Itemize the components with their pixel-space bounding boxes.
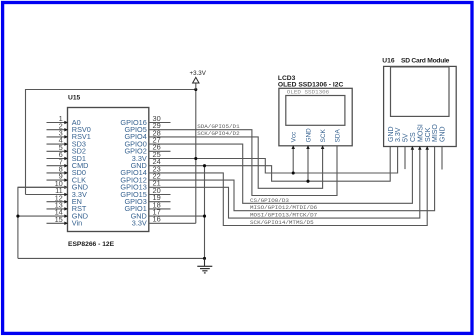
- U15 pin 20 (GPIO15) number and label with stub wire: [120, 186, 170, 199]
- U16 pin CS label and arrow: [410, 132, 417, 150]
- svg-text:SCK/GPIO14/MTMS/D5: SCK/GPIO14/MTMS/D5: [250, 219, 314, 226]
- LCD3 pin Vcc label: [291, 131, 298, 142]
- U16 card slot rectangle: [391, 67, 450, 117]
- wire U15 pin24 GND branch to OLED GND and SD GND: [149, 147, 390, 182]
- U16 value label SD Card Module: [401, 57, 450, 64]
- svg-text:U15: U15: [68, 94, 81, 101]
- U15 pin 22 (GPIO12) number and label: [120, 172, 160, 185]
- svg-text:GND: GND: [440, 126, 447, 142]
- U15 reference designator: [68, 94, 81, 101]
- junction on 3.3V rail at pin25: [194, 157, 197, 160]
- junction GND at OLED GND: [306, 180, 309, 183]
- junction 3.3V at OLED Vcc: [292, 171, 295, 174]
- ground symbol: [197, 258, 212, 273]
- junction GND rail at pin24: [203, 164, 206, 167]
- U16 5V unconnected stub wire: [404, 147, 406, 170]
- U16 pin MOSI label and arrow: [417, 124, 424, 150]
- svg-text:CS: CS: [410, 132, 417, 142]
- svg-text:3.3V: 3.3V: [132, 219, 147, 228]
- U15 pin 26 (GPIO2) number and label with stub wire: [124, 143, 170, 156]
- LCD3 pin SDA label: [334, 129, 341, 143]
- U15 pin 7 (CMD) wire, number and label: [47, 157, 89, 170]
- wire net MOSI: U15 pin21 GPIO13 to SD MOSI: [149, 147, 420, 219]
- U15 pin 2 (RSV0) wire, number and label: [47, 121, 91, 134]
- LCD3 pin GND arrow: [306, 145, 310, 149]
- svg-text:GND: GND: [388, 126, 395, 142]
- svg-text:15: 15: [55, 215, 63, 224]
- net label SCK/GPIO14/MTMS/D5: [250, 219, 314, 226]
- wire U15 pin25 3.3V branch to OLED Vcc and SD 3.3V: [149, 147, 398, 174]
- wire net SCK-SPI: U15 pin23 GPIO14 to SD SCK: [149, 147, 427, 226]
- svg-text:OLED SSD1306 - I2C: OLED SSD1306 - I2C: [278, 82, 344, 89]
- svg-text:SCK: SCK: [320, 129, 327, 143]
- display module LCD3 body: [279, 88, 352, 146]
- U15 pin 21 (GPIO13) number and label: [120, 179, 160, 192]
- wire U15 pin16 3.3V to rail: [149, 222, 196, 224]
- svg-text:MISO: MISO: [432, 124, 439, 142]
- svg-text:MOSI: MOSI: [417, 124, 424, 142]
- U15 pin 16 (3.3V) number and label: [132, 215, 161, 228]
- LCD3 pin GND label: [305, 128, 312, 143]
- svg-text:GND: GND: [305, 128, 312, 143]
- power label +3.3V: [190, 70, 207, 77]
- wire +3.3V rail vertical right of U15: [195, 90, 197, 224]
- U15 pin 19 (GPIO3) number and label with stub wire: [124, 193, 170, 206]
- U16 pin SCK label and arrow: [425, 127, 432, 149]
- svg-text:3.3V: 3.3V: [395, 127, 402, 142]
- LCD3 silkscreen text OLED SSD1306: [287, 89, 330, 96]
- svg-text:OLED SSD1306: OLED SSD1306: [287, 89, 330, 96]
- U15 pin 18 (GPIO1) number and label with stub wire: [124, 200, 170, 213]
- wire net SCL: U15 pin28 GPIO4 to OLED SCK: [149, 137, 323, 188]
- svg-text:5V: 5V: [403, 133, 410, 142]
- svg-text:SDA/GPIO5/D1: SDA/GPIO5/D1: [197, 123, 240, 130]
- LCD3 pin SCK label: [320, 129, 327, 143]
- svg-text:+3.3V: +3.3V: [190, 70, 207, 77]
- wire U15 pin17 GND to rail: [149, 215, 205, 217]
- svg-text:SCK/GPIO4/D2: SCK/GPIO4/D2: [197, 130, 240, 137]
- junction GND at ground symbol: [203, 257, 206, 260]
- U15 pin 10 (GND) wire, number and label: [18, 179, 88, 192]
- SD card module U16 body: [384, 66, 457, 146]
- U15 pin 1 (A0) wire, number and label: [47, 114, 81, 127]
- U15 pin 14 (GND) wire, number and label: [18, 208, 88, 221]
- U15 pin 28 (GPIO4) number and label: [124, 128, 160, 141]
- svg-text:ESP8266 - 12E: ESP8266 - 12E: [68, 241, 115, 248]
- svg-text:SD Card Module: SD Card Module: [401, 57, 450, 64]
- junction GND rail at pin17: [203, 215, 206, 218]
- LCD3 pin SCK arrow: [321, 145, 325, 149]
- U15 pin 17 (GND) number and label: [131, 208, 161, 221]
- wire bottom GND run: [18, 257, 205, 259]
- U15 pin 9 (CLK) wire, number and label: [47, 172, 87, 185]
- U15 pin 6 (SD1) wire, number and label: [47, 150, 87, 163]
- U15 pin 11 (3.3V) wire, number and label: [26, 186, 87, 199]
- U15 pin 25 (3.3V) number and label: [132, 150, 161, 163]
- U15 pin 12 (EN) wire, number and label: [47, 193, 82, 206]
- U16 pin GND label: [388, 126, 395, 142]
- wire net SDA: U15 pin29 GPIO5 to OLED SDA: [149, 130, 337, 196]
- U15 pin 30 (GPIO16) number and label with stub wire: [120, 114, 170, 127]
- net label SDA/GPIO5/D1: [197, 123, 240, 130]
- LCD3 pin Vcc arrow: [291, 145, 295, 149]
- net label MISO/GPIO12/MTDI/D6: [250, 204, 318, 211]
- U15 pin 3 (RSV1) wire, number and label: [47, 129, 91, 142]
- svg-text:U16: U16: [382, 57, 395, 64]
- LCD3 screen rectangle: [286, 96, 345, 126]
- wire OLED Vcc stub: [292, 146, 294, 173]
- U16 GND2 unconnected stub wire: [441, 147, 443, 170]
- U16 pin GND label: [440, 126, 447, 142]
- U16 reference designator: [382, 57, 395, 64]
- power symbol +3.3V: [193, 77, 199, 89]
- U16 pin 5V label: [403, 133, 410, 142]
- wire GND rail vertical right of U15: [204, 166, 206, 259]
- U15 pin 8 (SD0) wire, number and label: [47, 165, 87, 178]
- U15 pin 5 (SD2) wire, number and label: [47, 143, 87, 156]
- U15 pin 4 (SD3) wire, number and label: [47, 136, 87, 149]
- U15 pin 13 (RST) wire, number and label: [47, 201, 87, 214]
- wire net CS: U15 pin27 GPIO0 to SD CS: [149, 144, 413, 203]
- LCD3 value label OLED SSD1306 - I2C: [278, 82, 344, 89]
- net label CS/GPIO0/D3: [250, 197, 289, 204]
- U15 pin 23 (GPIO14) number and label: [120, 164, 160, 177]
- U15 pin 29 (GPIO5) number and label: [124, 121, 160, 134]
- U16 pin MISO label: [432, 124, 439, 142]
- U15 value label ESP8266 - 12E: [68, 241, 115, 248]
- svg-text:Vcc: Vcc: [291, 131, 298, 142]
- wire top 3.3V feed to U15 pin11: [26, 90, 196, 195]
- junction top of 3.3V rail: [194, 88, 197, 91]
- svg-text:CS/GPIO0/D3: CS/GPIO0/D3: [250, 197, 289, 204]
- junction left GND at pin14: [16, 215, 19, 218]
- wire left GND loop from U15 pin10 down: [18, 187, 68, 258]
- net label MOSI/GPIO13/MTCK/D7: [250, 212, 318, 219]
- U15 pin 27 (GPIO0) number and label: [124, 136, 160, 149]
- wire net MISO: U15 pin22 GPIO12 to SD MISO: [149, 147, 435, 211]
- svg-text:MISO/GPIO12/MTDI/D6: MISO/GPIO12/MTDI/D6: [250, 204, 318, 211]
- U15 pin 24 (GND) number and label: [131, 157, 161, 170]
- svg-text:SDA: SDA: [334, 129, 341, 143]
- net label SCK/GPIO4/D2: [197, 130, 240, 137]
- U15 pin 15 (Vin) wire, number and label: [47, 215, 83, 228]
- svg-text:Vin: Vin: [72, 219, 82, 228]
- U16 pin 3.3V label: [395, 127, 402, 142]
- svg-text:SCK: SCK: [425, 127, 432, 142]
- wire OLED GND stub: [307, 146, 309, 181]
- LCD3 reference designator: [278, 75, 296, 82]
- svg-text:MOSI/GPIO13/MTCK/D7: MOSI/GPIO13/MTCK/D7: [250, 212, 318, 219]
- IC U15 ESP8266-12E body: [68, 108, 149, 232]
